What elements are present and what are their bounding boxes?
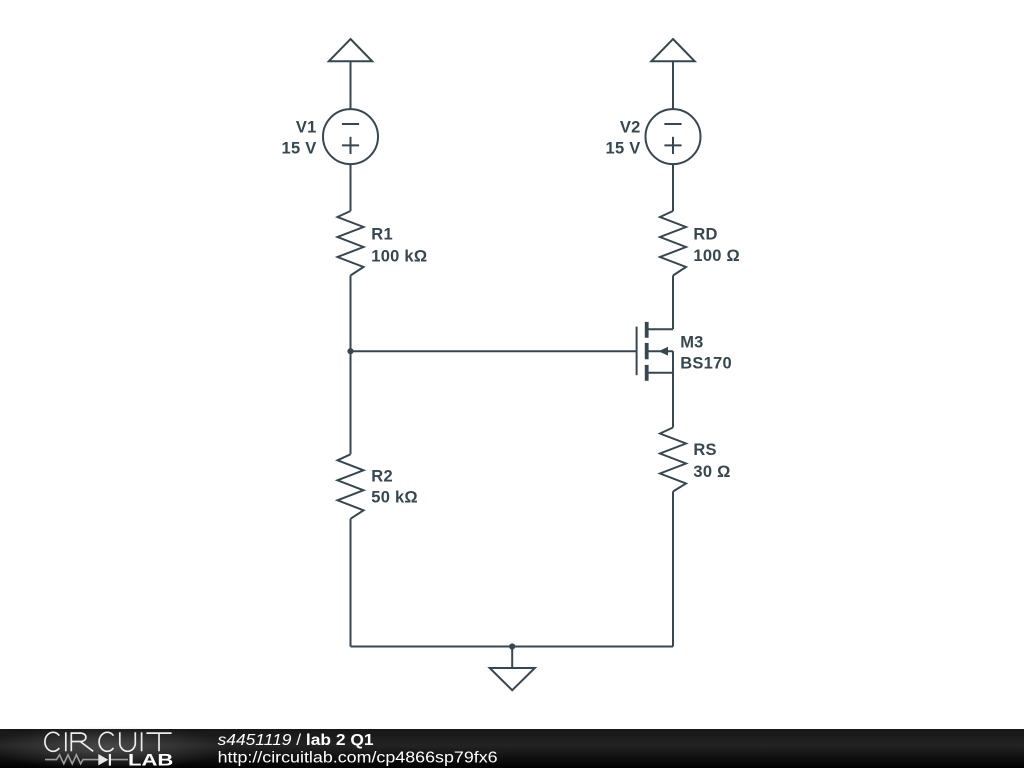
node: gate node junction [347,348,353,354]
label M3 BS170 [680,333,732,372]
voltage source V2 [646,109,701,164]
svg-text:V2: V2 [620,119,641,137]
wire: M3 source to RS top [672,373,674,428]
transistor M3 (NMOS) [637,322,673,381]
svg-text:100 kΩ: 100 kΩ [371,247,427,265]
label RS 30 &#937; [693,441,730,481]
wire: R1 bottom to gate node [350,276,352,352]
wire: power flag to V2 top [672,61,674,109]
svg-text:RS: RS [693,441,716,459]
label R2 50 k&#937; [371,468,418,507]
wire: R2 bottom to bottom rail [350,519,352,647]
svg-text:RD: RD [693,226,717,244]
svg-text:BS170: BS170 [680,355,732,373]
wire: V1 bottom to R1 top [350,164,352,211]
svg-text:R1: R1 [371,226,393,244]
power flag (V1 branch top) [329,39,372,61]
svg-text:M3: M3 [680,333,703,351]
CircuitLab logo resistor-diode squiggle [45,755,128,764]
svg-text:100 Ω: 100 Ω [693,247,740,265]
CircuitLab logo wordmark CIRCUIT (drawn strokes) [45,732,172,751]
svg-text:V1: V1 [296,119,317,137]
wire: power flag to V1 top [350,61,352,109]
svg-text:50 kΩ: 50 kΩ [371,488,418,506]
resistor R1 [338,211,364,276]
label V2 15 V [606,119,641,158]
svg-text:http://circuitlab.com/cp4866sp: http://circuitlab.com/cp4866sp79fx6 [218,750,498,767]
CircuitLab logo diode [98,754,110,766]
wire: RS bottom to bottom rail [672,492,674,647]
label V1 15 V [282,119,317,158]
node: ground junction [509,643,515,649]
svg-text:R2: R2 [371,468,393,486]
wire: gate node to M3 gate [351,350,637,352]
voltage source V1 [323,109,378,164]
ground [490,647,535,691]
label R1 100 k&#937; [371,226,427,266]
svg-text:15 V: 15 V [282,140,317,158]
resistor RD [660,211,686,276]
svg-text:30 Ω: 30 Ω [693,463,730,481]
wire: gate node down to R2 top [350,351,352,454]
label RD 100 &#937; [693,226,740,265]
svg-text:LAB: LAB [128,751,173,768]
wire: bottom rail [351,646,674,648]
resistor RS [660,428,686,492]
svg-text:15 V: 15 V [606,140,641,158]
resistor R2 [338,454,364,519]
svg-text:s4451119 / lab 2 Q1: s4451119 / lab 2 Q1 [218,732,374,749]
wire: RD bottom to M3 drain [672,276,674,330]
power flag (V2 branch top) [651,39,694,61]
wire: V2 bottom to RD top [672,164,674,211]
